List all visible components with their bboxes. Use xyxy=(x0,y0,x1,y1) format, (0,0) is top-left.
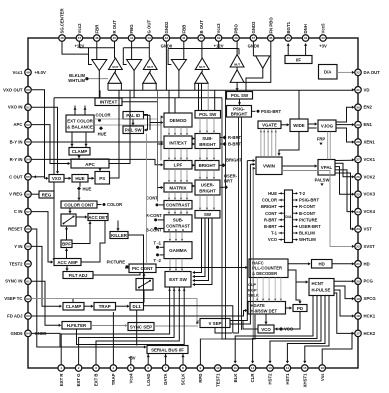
wire VJOG to pin29 EN1 xyxy=(336,123,355,126)
block MATRIX xyxy=(164,183,192,192)
svg-text:TRAP: TRAP xyxy=(111,373,116,385)
node CLP RGP SBLK labels xyxy=(248,282,259,297)
svg-text:10: 10 xyxy=(216,366,220,370)
svg-text:HAFC: HAFC xyxy=(252,260,264,265)
svg-text:GND3: GND3 xyxy=(251,21,256,34)
pin 12 CLR xyxy=(249,365,256,383)
wire PALSW to DEMOD xyxy=(144,115,164,130)
op-amp R drive xyxy=(92,60,107,71)
svg-text:HGATE: HGATE xyxy=(251,303,266,308)
pin 60 TEST2 xyxy=(9,261,31,268)
svg-text:XPCG: XPCG xyxy=(364,296,377,301)
wire POLSW to SUBBRIGHT xyxy=(199,118,215,134)
pin 30 EN2 xyxy=(355,104,373,111)
svg-text:VCO: VCO xyxy=(261,327,271,332)
wire VWIN left in3 xyxy=(253,167,256,170)
node COLOR dot xyxy=(95,113,110,122)
svg-text:USER-BRT: USER-BRT xyxy=(299,224,321,229)
svg-text:T-1: T-1 xyxy=(271,231,278,236)
svg-text:C OUT: C OUT xyxy=(9,174,23,179)
svg-text:B: B xyxy=(182,228,184,232)
svg-text:VCK4: VCK4 xyxy=(364,209,376,214)
wire pin63 FD ADJ to HGATE xyxy=(31,309,247,316)
svg-text:HCK1: HCK1 xyxy=(364,314,376,319)
svg-text:11: 11 xyxy=(234,366,238,370)
svg-text:48: 48 xyxy=(60,36,64,40)
svg-text:BRIGHT: BRIGHT xyxy=(226,158,242,163)
wire POLSW lower up4 xyxy=(214,90,216,110)
svg-text:BPF: BPF xyxy=(62,242,71,247)
block VXO xyxy=(49,175,64,183)
wire CLAMPY to TRAP xyxy=(84,305,94,308)
wire pin52 APC xyxy=(31,125,70,166)
wire HFILTER to EXTSW xyxy=(77,287,185,345)
svg-text:VCK3: VCK3 xyxy=(364,192,376,197)
svg-text:40: 40 xyxy=(199,36,203,40)
svg-text:CONT: CONT xyxy=(265,211,277,216)
node PSIG-BRT dot xyxy=(252,109,282,114)
svg-text:58: 58 xyxy=(26,227,30,231)
svg-text:G OUT: G OUT xyxy=(147,20,152,34)
svg-text:VD: VD xyxy=(364,87,370,92)
svg-text:GND5: GND5 xyxy=(11,331,24,336)
svg-text:HST2: HST2 xyxy=(268,373,273,385)
wire pin57 C IN to ACC AMP xyxy=(31,212,53,264)
wire PD to VCO xyxy=(275,312,300,331)
wire VPAL to pin26 VCK2 xyxy=(335,163,355,178)
pin 3 EXT B xyxy=(93,365,100,386)
svg-text:VCK1: VCK1 xyxy=(364,157,376,162)
wire LPF to MATRIX xyxy=(168,169,188,183)
svg-text:57: 57 xyxy=(26,210,30,214)
pin 4 TRAP xyxy=(110,365,117,385)
block HGATE H-SW DET xyxy=(248,302,286,315)
node BRIGHT diamond xyxy=(219,158,242,168)
block SERIAL BUS I/F xyxy=(147,346,188,354)
op-amp B drive xyxy=(171,60,186,71)
block VCO xyxy=(258,325,274,333)
svg-text:PAL SW: PAL SW xyxy=(125,128,143,133)
wire HCNT to pin20 PCG xyxy=(334,280,355,283)
node D/A right outputs xyxy=(293,191,322,242)
svg-text:H-9/6SW DET: H-9/6SW DET xyxy=(251,308,278,313)
svg-text:MATRIX: MATRIX xyxy=(169,186,187,191)
block PAL SW xyxy=(123,126,144,134)
svg-text:R-CONT: R-CONT xyxy=(146,213,163,218)
svg-text:DA OUT: DA OUT xyxy=(364,70,381,75)
wire VPAL to pin23 VST xyxy=(335,173,355,231)
wire pin5 stub xyxy=(130,356,132,365)
wire SW out2 xyxy=(192,218,208,282)
svg-text:PIC CONT: PIC CONT xyxy=(132,266,153,271)
node CONT dot xyxy=(146,195,164,206)
pin 21 HD xyxy=(355,261,370,268)
wire DEMOD to INT/EXT xyxy=(168,127,188,136)
block HCNT H-PULSE xyxy=(309,279,334,296)
pin 49 Vcc1 xyxy=(12,69,46,76)
op-amp R clamp xyxy=(108,72,121,83)
block CONTRAST xyxy=(164,201,192,210)
svg-text:B-CONT: B-CONT xyxy=(299,211,316,216)
wire +12V rail B xyxy=(168,41,239,54)
svg-text:HD: HD xyxy=(319,262,325,267)
svg-text:POL SW: POL SW xyxy=(231,93,249,98)
svg-text:VXO OUT: VXO OUT xyxy=(3,87,23,92)
svg-text:52: 52 xyxy=(26,123,30,127)
wire pin61 SYNC IN xyxy=(31,281,61,327)
wire trunk 222 xyxy=(222,98,255,339)
wire VWIN left in2 xyxy=(250,163,255,166)
svg-text:XEN1: XEN1 xyxy=(364,140,376,145)
svg-text:H.FILTER: H.FILTER xyxy=(67,323,87,328)
svg-text:46: 46 xyxy=(95,36,99,40)
svg-text:LPF: LPF xyxy=(174,163,183,168)
wire pin58 RESET xyxy=(31,229,60,347)
block WIDE xyxy=(290,119,308,132)
block SUB BRIGHT xyxy=(195,134,220,149)
pin 27 VCK1 xyxy=(355,156,376,163)
block DEMOD xyxy=(164,113,192,127)
block SW xyxy=(195,211,220,219)
svg-text:PICTURE: PICTURE xyxy=(299,217,318,222)
block SYNC SEP xyxy=(128,323,154,331)
node R-CONT dot xyxy=(146,213,164,221)
pin 63 FD ADJ xyxy=(7,313,31,320)
wire B amp out xyxy=(178,71,180,98)
wire HD to pin21 xyxy=(332,262,355,265)
svg-text:EXT B: EXT B xyxy=(94,374,99,387)
block PAL ID xyxy=(123,112,144,120)
svg-text:VCO: VCO xyxy=(268,237,278,242)
wire switch to ACCDET xyxy=(76,215,88,218)
block HAFC PLL-COUNTER DECODER xyxy=(249,259,288,278)
wire CONTRAST to SUBCONTRAST xyxy=(168,209,188,215)
wire pin55 C OUT xyxy=(31,175,45,178)
svg-text:22: 22 xyxy=(356,245,360,249)
block picture switch xyxy=(136,279,153,291)
pin 56 V REG xyxy=(9,191,31,198)
wire HCNT to pin17 HCK2 xyxy=(334,293,355,335)
wire INT/EXT to LPF xyxy=(168,149,188,161)
pin 39 Vcc3 xyxy=(214,23,224,49)
svg-text:INT/EXT: INT/EXT xyxy=(100,99,118,104)
pin 44 FBG xyxy=(128,24,135,41)
wire PICCONT left xyxy=(125,267,129,269)
wire pin43 GOUT to MUT xyxy=(148,41,150,58)
node USER-BRT diamond xyxy=(220,174,238,190)
svg-text:& BALANCE: & BALANCE xyxy=(67,125,93,130)
block CLAMP Y xyxy=(63,303,84,311)
svg-text:SG.CENTER: SG.CENTER xyxy=(60,8,65,34)
svg-text:+3V: +3V xyxy=(128,356,136,361)
pin 50 VXO OUT xyxy=(3,87,31,94)
svg-text:HST1: HST1 xyxy=(285,373,290,385)
pin 42 GND2 xyxy=(161,21,173,49)
block PS xyxy=(95,172,110,185)
wire pin48 to R amp xyxy=(62,41,89,54)
block KILLER xyxy=(110,232,128,239)
wire COLORCONT to switch xyxy=(68,208,71,214)
wire pin37 GND3 down xyxy=(253,41,255,56)
wire pin4 up xyxy=(112,312,114,365)
svg-text:FBG: FBG xyxy=(129,24,134,34)
svg-text:9: 9 xyxy=(200,366,202,370)
block EXT SW xyxy=(165,272,191,288)
svg-text:VSEP TC: VSEP TC xyxy=(4,296,22,301)
wire VD bus elbow to pin31 xyxy=(352,89,354,92)
wire IF to pin34 xyxy=(304,43,307,55)
svg-text:43: 43 xyxy=(147,36,151,40)
wire HAFC right to HCNT xyxy=(288,270,308,284)
svg-text:APC: APC xyxy=(85,162,95,167)
pin 9 RPD xyxy=(197,365,204,383)
svg-text:8: 8 xyxy=(182,366,184,370)
block H.FILTER xyxy=(62,322,91,330)
svg-text:R-BRT: R-BRT xyxy=(264,217,277,222)
wire HAFC to PD xyxy=(296,282,302,304)
wire EXTCOLOR to CLAMP xyxy=(70,132,87,148)
IC package boundary xyxy=(28,38,358,368)
wire pin45 ROUT to MUT xyxy=(114,41,116,58)
svg-text:FBB: FBB xyxy=(181,25,186,34)
wire TRAP to DLT xyxy=(116,305,130,308)
wire pin62 VSEP TC xyxy=(31,299,199,323)
wire BPF up to switch xyxy=(65,227,68,240)
svg-text:COLOR: COLOR xyxy=(107,202,122,207)
svg-text:51: 51 xyxy=(26,105,30,109)
svg-text:HUE: HUE xyxy=(83,187,92,192)
svg-text:47: 47 xyxy=(78,36,82,40)
svg-text:KILLER: KILLER xyxy=(111,233,128,238)
svg-text:BRIGHT: BRIGHT xyxy=(199,163,216,168)
svg-text:62: 62 xyxy=(26,297,30,301)
svg-text:33: 33 xyxy=(321,36,325,40)
wire POLSW lower up3 xyxy=(207,83,209,110)
svg-text:RPD: RPD xyxy=(198,374,203,383)
svg-text:DEMOD: DEMOD xyxy=(169,118,187,123)
block ACC AMP xyxy=(54,259,81,266)
wire EXTCOLOR up arrows xyxy=(73,106,86,116)
pin 11 BLK xyxy=(232,365,239,383)
svg-text:PBO: PBO xyxy=(234,24,239,34)
block D/A top xyxy=(319,65,338,80)
node HUE diamond 2 xyxy=(77,187,92,192)
wire HGATE to PD xyxy=(286,306,293,309)
svg-text:EXT COLOR: EXT COLOR xyxy=(67,118,93,123)
svg-text:27: 27 xyxy=(356,158,360,162)
svg-text:EN2: EN2 xyxy=(364,105,373,110)
node T-2 dot xyxy=(154,253,164,262)
svg-text:56: 56 xyxy=(26,192,30,196)
wire DLT down xyxy=(136,310,138,346)
wire POLSWupper to PSIG xyxy=(238,99,241,106)
wire VPAL to pin24 VCK4 xyxy=(335,170,355,213)
block V SEP xyxy=(200,319,230,328)
wire PBO MUT down xyxy=(236,67,239,92)
pin 26 VCK2 xyxy=(355,174,376,181)
svg-text:Vss: Vss xyxy=(320,373,325,381)
pin 31 VD xyxy=(355,87,370,94)
pin 47 Vcc2 xyxy=(74,23,84,49)
pin 48 SG.CENTER xyxy=(59,8,66,42)
wire APC right xyxy=(109,90,130,163)
svg-text:V REG: V REG xyxy=(9,192,23,197)
svg-text:USER-: USER- xyxy=(201,182,215,187)
node FRP label xyxy=(317,137,326,146)
svg-text:41: 41 xyxy=(182,36,186,40)
svg-text:SW: SW xyxy=(204,212,212,217)
pin 25 VCK3 xyxy=(355,191,376,198)
svg-text:SERIAL BUS I/F: SERIAL BUS I/F xyxy=(151,348,184,353)
svg-text:60: 60 xyxy=(26,262,30,266)
wire trunk 225 xyxy=(225,90,227,339)
svg-text:+9.0V: +9.0V xyxy=(35,70,46,75)
pin 28 XEN1 xyxy=(355,139,376,146)
svg-text:Vcc5: Vcc5 xyxy=(321,23,326,34)
svg-text:PD: PD xyxy=(297,306,303,311)
svg-text:SUB-: SUB- xyxy=(173,217,184,222)
pin 16 Vss xyxy=(319,365,326,381)
wire HCNT to pin18 HCK1 xyxy=(334,290,355,318)
block COLOR CONT xyxy=(61,201,97,208)
svg-text:BRIGHT: BRIGHT xyxy=(261,204,277,209)
wire G clamp drop xyxy=(143,70,156,91)
svg-text:64: 64 xyxy=(26,332,30,336)
svg-text:T -2: T -2 xyxy=(154,258,162,263)
wire SUBBRIGHT to BRIGHT xyxy=(199,149,215,161)
wire BLKLIM bus xyxy=(87,78,108,80)
svg-text:WIDE: WIDE xyxy=(293,123,305,128)
wire IF to pin35 xyxy=(287,43,290,55)
svg-text:35: 35 xyxy=(286,36,290,40)
svg-text:VST: VST xyxy=(364,227,373,232)
svg-text:3: 3 xyxy=(95,366,97,370)
svg-text:FD ADJ: FD ADJ xyxy=(7,314,23,319)
wire VPAL to pin25 VCK3 xyxy=(335,167,355,196)
svg-text:44: 44 xyxy=(130,36,134,40)
block BRIGHT xyxy=(195,161,219,171)
svg-text:R-CONT: R-CONT xyxy=(299,204,316,209)
pin 6 LOAD xyxy=(145,365,152,386)
svg-text:B OUT: B OUT xyxy=(199,20,204,34)
wire pin1 EXT R to EXTSW xyxy=(61,287,169,365)
op-amp B mute MUT xyxy=(195,58,209,70)
svg-text:4: 4 xyxy=(113,366,115,370)
svg-text:61: 61 xyxy=(26,279,30,283)
block APC xyxy=(71,159,109,168)
wire VWIN to pin22 XVST xyxy=(282,171,355,249)
svg-text:COLOR CONT: COLOR CONT xyxy=(64,202,94,207)
wire HCNT bottom to pin14 xyxy=(286,296,325,364)
svg-text:EN1: EN1 xyxy=(364,122,373,127)
block I/F xyxy=(285,56,312,64)
wire G amp elbow xyxy=(123,48,126,65)
pin 33 Vcc5 xyxy=(319,23,327,49)
node HUE diamond xyxy=(98,126,107,136)
pin 64 GND5 xyxy=(11,330,48,337)
svg-text:B-BRT: B-BRT xyxy=(228,142,241,147)
wire pin38 PBO to MUT xyxy=(236,41,238,54)
pin 1 EXT R xyxy=(58,365,64,386)
svg-text:D/A: D/A xyxy=(324,70,332,75)
block ACC DET xyxy=(88,214,108,221)
block HUE xyxy=(72,175,88,183)
svg-text:HUE: HUE xyxy=(98,132,107,137)
pin 8 SCLK xyxy=(180,365,187,385)
svg-text:LOAD: LOAD xyxy=(146,374,151,386)
wire bus x161 xyxy=(158,117,164,189)
wire USERBRIGHT to SW xyxy=(199,195,215,211)
svg-text:59: 59 xyxy=(26,245,30,249)
block VPAL xyxy=(318,160,335,176)
wire pin51 VXO IN xyxy=(31,107,59,174)
svg-text:CONT: CONT xyxy=(146,195,158,200)
node B-CONT dot xyxy=(146,227,164,233)
svg-text:29: 29 xyxy=(356,123,360,127)
wire BPF right to ACCDET xyxy=(72,221,92,243)
svg-text:EXT G: EXT G xyxy=(76,373,81,387)
block GAMMA xyxy=(164,242,192,259)
wire B amp elbow xyxy=(168,49,171,65)
wire pin64 GND5 xyxy=(31,333,146,348)
node BLKLIM WHTLIM xyxy=(68,73,88,83)
pin 24 VCK4 xyxy=(355,208,376,215)
svg-text:B-Y IN: B-Y IN xyxy=(10,140,23,145)
block CLAMP chroma xyxy=(69,148,90,156)
svg-text:SYNC IN: SYNC IN xyxy=(5,279,22,284)
pin 17 HCK2 xyxy=(355,330,376,337)
wire pin3 EXT B to EXTSW xyxy=(96,287,179,365)
svg-text:18: 18 xyxy=(356,314,360,318)
wire ACCDET to KILLER xyxy=(116,221,119,232)
wire ACC AMP arrow xyxy=(52,258,55,261)
wire POLSW lower up1 xyxy=(195,70,202,111)
block VGATE xyxy=(258,121,281,129)
wire HAFC to HD xyxy=(288,262,311,265)
pin 29 EN1 xyxy=(355,121,373,128)
svg-text:20: 20 xyxy=(356,279,360,283)
wire pin40 BOUT to MUT xyxy=(201,41,203,58)
wire VJOG to VPAL xyxy=(328,132,331,160)
svg-text:VWIN: VWIN xyxy=(263,164,276,169)
svg-text:Y IN: Y IN xyxy=(14,244,22,249)
svg-text:23: 23 xyxy=(356,227,360,231)
wire picsw down xyxy=(143,290,145,303)
svg-text:2: 2 xyxy=(78,366,80,370)
svg-text:TEST2: TEST2 xyxy=(9,261,23,266)
block EXT COLOR & BALANCE xyxy=(66,115,94,132)
wire bus x157.5 xyxy=(157,90,159,201)
svg-text:FILT ADJ: FILT ADJ xyxy=(69,273,88,278)
wire EXTSW bottom arrows xyxy=(168,289,185,291)
pin 10 TEST1 xyxy=(215,365,222,387)
wire SW out1 xyxy=(192,218,201,274)
wire ACCAMP to FILTADJ xyxy=(65,266,68,272)
svg-text:25: 25 xyxy=(356,192,360,196)
block LPF xyxy=(164,161,192,170)
svg-text:T-2: T-2 xyxy=(299,191,306,196)
svg-text:INT/EXT: INT/EXT xyxy=(169,140,187,145)
svg-text:PAL ID: PAL ID xyxy=(126,113,140,118)
wire pin2 EXT G to EXTSW xyxy=(79,287,175,365)
svg-text:EXT R: EXT R xyxy=(59,373,64,387)
wire HCNT to pin19 XPCG xyxy=(334,286,355,300)
svg-text:28: 28 xyxy=(356,140,360,144)
svg-text:17: 17 xyxy=(356,332,360,336)
block TRAP xyxy=(94,303,116,311)
pin 7 DATA xyxy=(162,365,169,385)
pin 15 XHST1 xyxy=(302,365,309,388)
